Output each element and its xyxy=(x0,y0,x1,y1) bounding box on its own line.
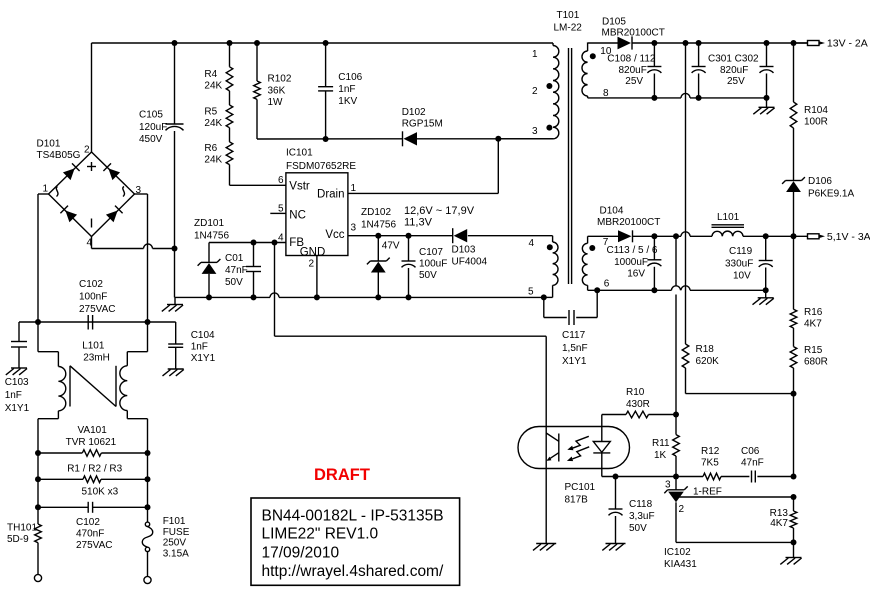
ground opto emitter xyxy=(533,544,556,551)
svg-text:50V: 50V xyxy=(629,523,647,534)
svg-text:NC: NC xyxy=(289,210,306,222)
wire drain riser xyxy=(348,139,498,194)
node R4 top xyxy=(227,40,233,46)
svg-text:T101: T101 xyxy=(557,10,580,21)
wire IC101 GND pin2 xyxy=(316,256,318,298)
node filter left xyxy=(35,319,41,325)
svg-text:X1Y1: X1Y1 xyxy=(562,356,587,367)
svg-text:Vstr: Vstr xyxy=(289,181,310,193)
svg-text:LM-22: LM-22 xyxy=(554,23,583,34)
svg-text:Drain: Drain xyxy=(317,189,344,201)
svg-text:GND: GND xyxy=(300,246,326,258)
svg-text:10V: 10V xyxy=(733,271,751,282)
wire 13V rail after D105 xyxy=(632,42,808,44)
node C row left xyxy=(35,504,41,510)
bridge AC squiggle right xyxy=(123,187,125,197)
inductor L101 choke right winding xyxy=(120,322,148,453)
svg-text:24K: 24K xyxy=(204,118,222,129)
svg-text:3: 3 xyxy=(532,126,538,137)
capacitor C119 xyxy=(759,236,773,290)
svg-text:R18: R18 xyxy=(696,344,715,355)
svg-text:3.15A: 3.15A xyxy=(163,549,189,560)
transformer T101 aux winding xyxy=(544,236,558,298)
node filter right xyxy=(145,319,151,325)
svg-text:DRAFT: DRAFT xyxy=(314,466,370,484)
wire FB to optocoupler xyxy=(275,243,547,544)
optocoupler PC101 817B body xyxy=(518,427,630,469)
svg-text:C301 C302: C301 C302 xyxy=(708,54,759,65)
node ZD102 bottom xyxy=(375,294,381,300)
svg-text:450V: 450V xyxy=(139,134,163,145)
wire left column R row to C row xyxy=(37,479,39,507)
wire top primary rail xyxy=(92,42,554,44)
wire 13V output stub xyxy=(794,42,808,44)
node C106 bottom xyxy=(323,136,329,142)
phase dot pin2 xyxy=(546,83,552,89)
svg-text:1000uF: 1000uF xyxy=(614,257,648,268)
svg-text:13V - 2A: 13V - 2A xyxy=(827,38,868,50)
capacitor C102 100nF xyxy=(88,315,92,330)
bridge diode D101b xyxy=(103,163,120,180)
svg-text:430R: 430R xyxy=(626,399,650,410)
svg-text:1K: 1K xyxy=(654,450,667,461)
zener ZD101 1N4756 xyxy=(198,243,221,298)
wire drain node to primary pin3 xyxy=(498,138,553,140)
svg-text:R12: R12 xyxy=(701,446,720,457)
svg-text:ZD101: ZD101 xyxy=(194,218,224,229)
svg-text:4: 4 xyxy=(86,238,92,249)
resistor R102 xyxy=(254,43,261,139)
svg-text:R1 / R2 / R3: R1 / R2 / R3 xyxy=(67,464,122,475)
phase dot pin3 xyxy=(546,125,552,131)
node C106 top xyxy=(323,40,329,46)
op-amp IC101 FSDM07652RE box xyxy=(286,173,348,256)
svg-text:330uF: 330uF xyxy=(725,259,753,270)
svg-text:C108 / 112: C108 / 112 xyxy=(607,54,656,65)
wire IC102 REF xyxy=(679,496,794,498)
svg-text:C118: C118 xyxy=(629,499,653,510)
node R10 R11 line top xyxy=(673,233,679,239)
svg-text:1N4756: 1N4756 xyxy=(194,231,229,242)
svg-text:5: 5 xyxy=(278,204,284,215)
resistor R16 xyxy=(790,236,797,328)
svg-text:25V: 25V xyxy=(625,76,643,87)
resistor R5 xyxy=(226,91,233,128)
resistor R6 xyxy=(226,128,233,165)
node C107 bottom xyxy=(406,294,412,300)
capacitor C105 column xyxy=(166,43,184,297)
node FB junction xyxy=(272,240,278,246)
wire R6 to Vstr pin 6 xyxy=(230,165,286,186)
svg-text:BN44-00182L - IP-53135B: BN44-00182L - IP-53135B xyxy=(262,508,444,525)
ground bus 6 xyxy=(753,290,774,304)
svg-text:1KV: 1KV xyxy=(338,96,357,107)
node aux pin5 on rail xyxy=(541,294,547,300)
node C01 bottom xyxy=(251,294,257,300)
svg-text:C06: C06 xyxy=(741,446,760,457)
resistor R1 R2 R3 xyxy=(38,476,148,483)
resistor R4 xyxy=(226,43,233,91)
svg-text:R10: R10 xyxy=(626,387,645,398)
svg-text:100R: 100R xyxy=(804,117,828,128)
svg-text:UF4004: UF4004 xyxy=(452,257,488,268)
capacitor C118 xyxy=(609,477,623,544)
node ZD101 anode xyxy=(206,294,212,300)
wire FB pin4 xyxy=(209,242,286,244)
svg-text:D104: D104 xyxy=(600,206,624,217)
svg-text:X1Y1: X1Y1 xyxy=(191,353,216,364)
terminal AC right xyxy=(144,576,151,583)
svg-text:1nF: 1nF xyxy=(191,342,208,353)
svg-text:R104: R104 xyxy=(804,105,828,116)
svg-text:6: 6 xyxy=(278,175,284,186)
svg-text:510K x3: 510K x3 xyxy=(82,487,119,498)
resistor R15 xyxy=(790,328,797,394)
bridge diode D101c xyxy=(60,206,77,223)
resistor R104 xyxy=(790,43,797,181)
svg-text:R15: R15 xyxy=(804,345,823,356)
svg-text:C104: C104 xyxy=(191,330,215,341)
svg-text:275VAC: 275VAC xyxy=(79,304,116,315)
bridge rectifier D101 TS4B05G body xyxy=(49,152,135,237)
svg-text:MBR20100CT: MBR20100CT xyxy=(602,28,665,39)
node C107 top xyxy=(406,233,412,239)
svg-text:TH101: TH101 xyxy=(7,523,37,534)
bridge minus mark xyxy=(91,219,93,228)
wire primary ground rail xyxy=(175,293,544,298)
svg-text:8: 8 xyxy=(603,88,609,99)
svg-text:R11: R11 xyxy=(652,438,670,449)
svg-text:3,3uF: 3,3uF xyxy=(629,511,655,522)
node R15 R18 junction xyxy=(791,391,797,397)
bridge diode D101d xyxy=(106,206,123,223)
svg-text:4K7: 4K7 xyxy=(770,518,788,529)
connector 5.1V output xyxy=(808,234,826,239)
ground primary rail xyxy=(162,297,183,311)
svg-text:2: 2 xyxy=(679,504,685,515)
svg-text:817B: 817B xyxy=(565,495,589,506)
wire secondary ground bus 8 xyxy=(588,93,767,98)
transformer T101 primary winding xyxy=(553,43,559,139)
node C302 bottom xyxy=(764,95,770,101)
svg-text:25V: 25V xyxy=(727,76,745,87)
diode D104 MBR20100CT xyxy=(588,230,633,242)
svg-text:36K: 36K xyxy=(268,86,286,97)
svg-text:5,1V - 3A: 5,1V - 3A xyxy=(827,231,870,243)
node R10 R11 junction xyxy=(673,412,679,418)
svg-text:47V: 47V xyxy=(382,241,400,252)
wire R18 column from 13V xyxy=(685,43,687,344)
node C105 top xyxy=(172,40,178,46)
zener D106 P6KE9.1A xyxy=(782,177,805,236)
resistor R12 xyxy=(703,473,749,480)
svg-text:680R: 680R xyxy=(804,357,828,368)
node C row right xyxy=(145,504,151,510)
svg-text:KIA431: KIA431 xyxy=(664,559,697,570)
wire 5.1V rail xyxy=(633,232,713,237)
svg-text:R102: R102 xyxy=(268,74,292,85)
svg-text:IC102: IC102 xyxy=(664,547,691,558)
transistor IC102 KIA431 shunt regulator xyxy=(664,477,793,543)
svg-text:100nF: 100nF xyxy=(79,292,107,303)
node R102 top xyxy=(254,40,260,46)
svg-text:250V: 250V xyxy=(163,538,187,549)
phase dot aux pin4 xyxy=(547,244,553,250)
svg-text:2: 2 xyxy=(309,259,315,270)
wire 5.1V rail after L101 xyxy=(743,235,808,237)
svg-text:24K: 24K xyxy=(204,155,222,166)
capacitor C117 xyxy=(544,290,597,325)
svg-text:R4: R4 xyxy=(204,69,217,80)
node C06 right xyxy=(791,474,797,480)
svg-text:275VAC: 275VAC xyxy=(76,540,113,551)
wire secondary ground bus 6 xyxy=(588,286,766,291)
svg-text:47nF: 47nF xyxy=(741,458,764,469)
capacitor C106 xyxy=(318,43,333,139)
wire divider column xyxy=(793,394,795,477)
inductor L101 choke core xyxy=(70,366,116,407)
svg-text:PC101: PC101 xyxy=(565,482,596,493)
wire primary pin3 bottom xyxy=(498,138,553,140)
node C301 top xyxy=(696,40,702,46)
capacitor C104 xyxy=(168,322,183,369)
svg-text:Vcc: Vcc xyxy=(325,229,344,241)
wire opto cathode node row xyxy=(602,476,703,478)
svg-text:D106: D106 xyxy=(808,176,832,187)
node VA101 right xyxy=(145,450,151,456)
svg-text:2: 2 xyxy=(84,145,90,156)
svg-text:R16: R16 xyxy=(804,307,823,318)
svg-text:5D-9: 5D-9 xyxy=(7,534,29,545)
node R104 top xyxy=(791,40,797,46)
node R11 IC102 cathode xyxy=(673,474,679,480)
wire NC stub pin5 xyxy=(270,212,286,214)
inductor L101 choke left winding xyxy=(38,322,66,453)
svg-text:1: 1 xyxy=(351,183,357,194)
svg-text:1nF: 1nF xyxy=(338,84,355,95)
capacitor C301 xyxy=(692,43,706,98)
svg-text:R5: R5 xyxy=(204,107,217,118)
bridge plus mark xyxy=(87,162,96,171)
svg-text:D105: D105 xyxy=(602,17,626,28)
ground C103 xyxy=(6,368,27,375)
wire bridge pin1 to left column xyxy=(38,194,49,322)
capacitor C108 112 xyxy=(647,43,661,98)
ground IC102 anode xyxy=(780,542,801,564)
capacitor C302 xyxy=(760,43,774,98)
ground bus 8 xyxy=(753,98,774,114)
svg-text:C107: C107 xyxy=(419,247,443,258)
wire 13V rail xyxy=(588,42,619,45)
capacitor C01 xyxy=(246,243,261,298)
svg-text:1: 1 xyxy=(42,184,48,195)
svg-text:C102: C102 xyxy=(79,279,103,290)
wire bridge pin2 riser xyxy=(91,43,93,152)
svg-text:3: 3 xyxy=(136,185,142,196)
wire D103 to aux winding pin4 xyxy=(468,235,553,237)
node C301 bottom xyxy=(696,95,702,101)
transformer T101 secondary winding 10-8 xyxy=(582,43,588,98)
optocoupler light arrow 2 xyxy=(567,447,589,461)
svg-text:620K: 620K xyxy=(696,356,720,367)
svg-text:1: 1 xyxy=(532,49,538,60)
wire D102 to drain node xyxy=(416,138,498,140)
varistor VA101 xyxy=(38,450,148,457)
fuse F101 xyxy=(142,507,153,576)
svg-text:17/09/2010: 17/09/2010 xyxy=(262,545,340,562)
zener ZD102 1N4756 xyxy=(367,236,390,298)
svg-text:D103: D103 xyxy=(452,245,476,256)
diode D102 RGP15M xyxy=(403,131,418,146)
svg-text:24K: 24K xyxy=(204,81,222,92)
node C113 top xyxy=(651,233,657,239)
svg-text:C105: C105 xyxy=(139,110,163,121)
capacitor C102 470nF row xyxy=(38,502,148,513)
svg-text:820uF: 820uF xyxy=(619,65,647,76)
svg-text:D101: D101 xyxy=(37,139,61,150)
wire R10 R11 column xyxy=(675,236,677,414)
svg-text:820uF: 820uF xyxy=(720,65,748,76)
svg-text:23mH: 23mH xyxy=(83,353,110,364)
node C302 top xyxy=(764,40,770,46)
svg-text:3: 3 xyxy=(665,480,671,491)
resistor R10 xyxy=(602,411,676,418)
svg-text:http://wrayel.4shared.com/: http://wrayel.4shared.com/ xyxy=(262,563,444,580)
diode D105 MBR20100CT xyxy=(618,36,633,49)
ground C104 xyxy=(163,369,184,376)
wire bridge pin4 to DC bus with hop xyxy=(92,237,175,249)
node FB-ZD101 xyxy=(251,240,257,246)
node bus6 end xyxy=(763,287,769,293)
resistor R11 xyxy=(673,415,680,477)
wire left column VA to R row xyxy=(37,453,39,479)
node anode ground junction xyxy=(791,539,797,545)
svg-text:50V: 50V xyxy=(419,270,437,281)
svg-text:4: 4 xyxy=(278,233,284,244)
node C113 bottom xyxy=(651,287,657,293)
wire bridge pin3 to right column xyxy=(135,194,148,322)
svg-text:12,6V ~ 17,9V: 12,6V ~ 17,9V xyxy=(404,205,475,217)
optocoupler light arrow 1 xyxy=(567,436,589,450)
wire Vcc pin3 xyxy=(348,235,453,237)
transformer T101 secondary winding 7-6 xyxy=(582,236,587,290)
wire snubber bottom xyxy=(257,138,403,140)
node C108 top xyxy=(651,40,657,46)
capacitor C103 xyxy=(11,322,27,368)
svg-text:C119: C119 xyxy=(729,246,753,257)
diode D103 UF4004 xyxy=(453,228,468,243)
svg-text:FUSE: FUSE xyxy=(163,527,190,538)
node VA101 left xyxy=(35,450,41,456)
svg-text:16V: 16V xyxy=(627,269,645,280)
connector 13V output xyxy=(808,41,826,46)
svg-text:1N4756: 1N4756 xyxy=(361,220,396,231)
node GND on rail xyxy=(314,294,320,300)
node C108 bottom xyxy=(651,95,657,101)
svg-text:C113 / 5 / 6: C113 / 5 / 6 xyxy=(607,245,658,256)
node ZD102 top xyxy=(375,233,381,239)
ground C118 xyxy=(602,544,625,551)
node R row right xyxy=(145,476,151,482)
svg-text:47nF: 47nF xyxy=(225,265,248,276)
info box xyxy=(251,498,460,585)
svg-text:1nF: 1nF xyxy=(5,390,22,401)
svg-text:470nF: 470nF xyxy=(76,529,104,540)
node drain junction xyxy=(495,136,501,142)
terminal AC left xyxy=(34,574,41,581)
wire AC filter top xyxy=(19,321,176,323)
svg-text:C01: C01 xyxy=(225,253,244,264)
wire right column VA to R row xyxy=(147,453,149,479)
resistor R18 xyxy=(682,344,793,394)
svg-text:50V: 50V xyxy=(225,277,243,288)
transformer T101 core xyxy=(569,48,572,284)
svg-text:ZD102: ZD102 xyxy=(361,207,391,218)
svg-text:100uF: 100uF xyxy=(419,259,447,270)
svg-text:LIME22" REV1.0: LIME22" REV1.0 xyxy=(262,526,379,543)
svg-text:C106: C106 xyxy=(338,72,362,83)
node R row left xyxy=(35,476,41,482)
capacitor C113 5 6 xyxy=(647,236,661,290)
wire right column R row to C row xyxy=(147,479,149,507)
svg-text:C117: C117 xyxy=(562,330,586,341)
svg-text:4: 4 xyxy=(529,238,535,249)
svg-text:120uF: 120uF xyxy=(139,122,167,133)
node C105 bottom xyxy=(172,246,178,252)
svg-text:P6KE9.1A: P6KE9.1A xyxy=(808,189,854,200)
svg-text:3: 3 xyxy=(351,223,357,234)
svg-text:1-REF: 1-REF xyxy=(693,487,722,498)
svg-text:RGP15M: RGP15M xyxy=(402,119,443,130)
resistor R13 xyxy=(790,497,797,542)
capacitor C06 xyxy=(752,471,794,483)
node D106 R16 junction xyxy=(791,233,797,239)
svg-text:1,5nF: 1,5nF xyxy=(562,343,588,354)
svg-text:C103: C103 xyxy=(5,377,29,388)
svg-text:TVR 10621: TVR 10621 xyxy=(66,437,117,448)
svg-text:1W: 1W xyxy=(268,97,284,108)
svg-text:4K7: 4K7 xyxy=(804,319,822,330)
svg-text:11,3V: 11,3V xyxy=(404,217,433,229)
svg-text:7K5: 7K5 xyxy=(701,458,719,469)
bridge AC squiggle left xyxy=(56,187,58,197)
svg-text:C102: C102 xyxy=(76,517,100,528)
thermistor TH101 xyxy=(35,507,42,574)
svg-text:F101: F101 xyxy=(163,516,186,527)
svg-text:5: 5 xyxy=(528,287,534,298)
optocoupler PC101 phototransistor xyxy=(546,433,559,462)
bridge diode D101a xyxy=(63,163,80,180)
inductor L101 output xyxy=(712,225,745,237)
capacitor C107 xyxy=(402,236,416,298)
svg-text:FSDM07652RE: FSDM07652RE xyxy=(286,161,356,172)
svg-text:L101: L101 xyxy=(82,341,105,352)
svg-text:R6: R6 xyxy=(204,143,217,154)
node C119 top xyxy=(763,233,769,239)
svg-text:VA101: VA101 xyxy=(78,425,108,436)
node C118 top xyxy=(613,474,619,480)
svg-text:TS4B05G: TS4B05G xyxy=(37,150,81,161)
svg-text:IC101: IC101 xyxy=(286,147,313,158)
svg-text:D102: D102 xyxy=(402,107,426,118)
optocoupler PC101 LED xyxy=(593,415,610,477)
phase dot pin10 xyxy=(590,53,596,59)
node R18 line top xyxy=(683,40,689,46)
svg-text:MBR20100CT: MBR20100CT xyxy=(597,217,660,228)
svg-text:X1Y1: X1Y1 xyxy=(5,403,30,414)
svg-text:2: 2 xyxy=(532,86,538,97)
svg-text:6: 6 xyxy=(604,279,610,290)
